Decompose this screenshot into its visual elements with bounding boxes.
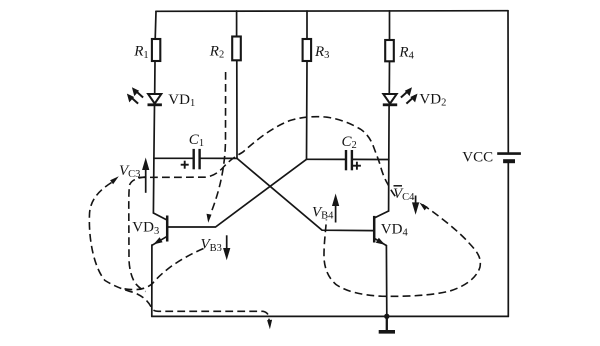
svg-text:VCC: VCC <box>462 149 493 165</box>
